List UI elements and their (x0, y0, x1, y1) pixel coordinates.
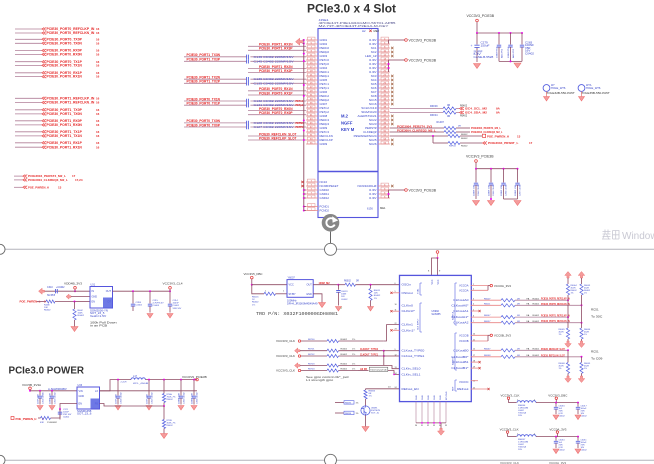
U6992 pin VCCOC (459, 381, 469, 384)
net PCIE30_PORT1_REFCLKN_IN (541, 319, 570, 323)
U6992 pin CLKoutB1 (453, 361, 469, 364)
svg-text:M.2: M.2 (341, 114, 349, 119)
capacitor C31B (132, 291, 134, 303)
no-connect mark (391, 119, 393, 121)
mounting hole W7 (543, 85, 550, 92)
wire PCIE30_PORT1_TX2N with series cap C136 (184, 78, 247, 80)
right pin stub 14 (378, 91, 390, 93)
svg-text:L17: L17 (133, 375, 138, 378)
svg-text:100NF X5R: 100NF X5R (192, 393, 194, 404)
svg-text:PERp2: PERp2 (320, 98, 330, 102)
svg-text:16: 16 (96, 75, 100, 79)
svg-text:9LI8455: 9LI8455 (432, 313, 442, 316)
left pin stub 9 (306, 71, 318, 73)
junction (303, 119, 305, 121)
svg-text:PCIE3004_PERST4_M2_L: PCIE3004_PERST4_M2_L (471, 126, 501, 130)
net POE_PWREN_H enable (11, 417, 14, 420)
pin net label PETN0 (296, 122, 305, 125)
no-connect mark (391, 47, 393, 49)
wire 3.3V pins to VCC3V3_PCIE3B (388, 40, 390, 44)
svg-text:17: 17 (529, 141, 533, 145)
power node circle (507, 397, 509, 399)
connector left pin GND2 (320, 42, 328, 46)
svg-text:9A: 9A (496, 111, 501, 115)
connector right pin PEWAKE#/NC24 (354, 134, 377, 138)
svg-text:1%: 1% (369, 396, 372, 398)
svg-text:R0402: R0402 (78, 315, 85, 317)
svg-text:PCIE30_PORT0_TX1P: PCIE30_PORT0_TX1P (187, 102, 221, 106)
svg-text:R6402: R6402 (461, 138, 468, 140)
power node circle (476, 19, 479, 22)
right pin stub 27 (378, 143, 390, 145)
right pin stub 2 (378, 43, 390, 45)
left pin stub 3 (306, 47, 318, 49)
net I2C4_SDA_M2 (460, 111, 464, 114)
ground (37, 406, 43, 411)
right pin stub 8 (378, 67, 390, 69)
svg-text:GND: GND (92, 296, 98, 299)
junction (149, 290, 151, 292)
termination pulldown column 4 (581, 357, 583, 363)
svg-text:33: 33 (433, 425, 435, 427)
junction (303, 39, 305, 41)
title: PCIe3.0 x 4 Slot (307, 4, 396, 16)
ground (488, 201, 495, 206)
net stub PCIE30_PORT1_TX0N (15, 113, 42, 115)
U6992 refdes (432, 310, 442, 316)
junction (490, 168, 492, 170)
svg-text:U31: U31 (91, 284, 96, 287)
U6992 pin VCCOB (459, 340, 469, 343)
connector left pin PETp1 (320, 86, 330, 90)
svg-text:R6703: R6703 (308, 363, 315, 365)
U6992 pin CLKin0 (402, 305, 414, 308)
connector lower left pin PCND2 (320, 209, 330, 213)
wire PCIE30_PORT1_TX3P with series cap C145 (184, 60, 247, 62)
svg-text:R3F04: R3F04 (449, 146, 456, 148)
U6992 bank labels (452, 312, 455, 320)
capacitor C363 (117, 379, 119, 381)
connector right pin NC8 (371, 94, 377, 98)
wire PCIE30_PORT0_RX0N (248, 110, 306, 112)
connector left pin GND5 (320, 78, 328, 82)
svg-text:NC6: NC6 (371, 86, 377, 90)
net stub PCIE30_PORT1_TX0P (15, 109, 42, 111)
net stub PCIE30_PORT0_TX0P (15, 38, 42, 40)
svg-text:VCCOA: VCCOA (459, 289, 469, 292)
svg-text:PCIE30_REFCLKP_SLOT: PCIE30_REFCLKP_SLOT (541, 347, 565, 351)
svg-text:CLKin0: CLKin0 (402, 305, 414, 308)
termination pullup column 1 (565, 272, 572, 279)
termination pullup column 2 (578, 272, 585, 279)
svg-text:3.3V: 3.3V (369, 38, 377, 42)
connector left pin PETn1 (320, 82, 330, 86)
ground (365, 415, 367, 426)
svg-text:GND9: GND9 (320, 142, 328, 146)
svg-text:VCC: VCC (289, 284, 294, 287)
stub rows lower (471, 380, 478, 382)
svg-text:100NF X5R: 100NF X5R (515, 185, 517, 196)
svg-text:13: 13 (395, 367, 397, 369)
svg-text:VCC5B_3V3A: VCC5B_3V3A (22, 383, 41, 387)
svg-text:17,24: 17,24 (75, 178, 83, 182)
left pin stub 18 (306, 107, 318, 109)
connector part number (319, 21, 397, 25)
svg-text:24: 24 (395, 387, 397, 389)
ferrite bead FB6007 (508, 436, 517, 438)
ground (575, 415, 581, 420)
wire EN (38, 417, 41, 419)
svg-text:PCIE30_PORT0_TX0N: PCIE30_PORT0_TX0N (47, 41, 83, 45)
capacitor C371 (59, 408, 61, 410)
svg-text:SCLK/C19: SCLK/C19 (361, 106, 377, 110)
svg-text:100NF/X5S: 100NF/X5S (508, 46, 510, 58)
svg-text:3.3V: 3.3V (369, 196, 377, 200)
svg-text:NC3: NC3 (371, 74, 377, 78)
connector right pin SCLK/C19 (361, 106, 377, 110)
net PCIE30_PORT1_REFCLKP_IN (541, 314, 570, 318)
ferrite bead FB6004 (509, 402, 517, 404)
svg-text:REF: REF (453, 386, 455, 391)
svg-text:C146 C0402 220NF/1SV: C146 C0402 220NF/1SV (254, 56, 294, 59)
svg-text:24: 24 (388, 387, 391, 389)
wire LX to inductor (100, 380, 132, 391)
connector right pin NC3 (371, 74, 377, 78)
net stub PCIE30_PORT1_RX1N (15, 146, 42, 148)
svg-text:R0402: R0402 (341, 368, 348, 370)
U6992 group brackets (420, 283, 457, 391)
svg-text:NC9/102KHZ: NC9/102KHZ (358, 184, 377, 188)
connector lower left pin NC10 (320, 180, 328, 184)
svg-text:GND5: GND5 (320, 78, 328, 82)
svg-text:0R: 0R (458, 125, 461, 127)
net stub PCIE30_PORT0_RX0P (15, 50, 42, 52)
svg-text:PCIE30_PORT0_RX1N: PCIE30_PORT0_RX1N (47, 75, 83, 79)
power label VCC3V3_CLK (500, 427, 519, 431)
svg-text:0R: 0R (447, 104, 450, 107)
connector left pin PERp1 (320, 74, 330, 78)
svg-text:PERn3: PERn3 (320, 118, 330, 122)
svg-text:PETn0: PETn0 (320, 58, 330, 62)
svg-text:C286 C0402: C286 C0402 (506, 183, 508, 196)
left pin stub 1 (306, 39, 318, 41)
U6992 pin CLKin_SEL1 (402, 373, 422, 376)
svg-text:13: 13 (58, 185, 62, 189)
svg-text:VCC3V3_CLK: VCC3V3_CLK (501, 393, 520, 397)
svg-text:R0402: R0402 (460, 115, 468, 118)
U6992 pin OSCin (402, 284, 412, 287)
svg-text:VCC3V3_PCIE3B: VCC3V3_PCIE3B (467, 14, 495, 18)
connector lower right pin 3.3V (369, 188, 377, 192)
svg-text:EN: EN (79, 402, 83, 405)
svg-text:SGM2036-YN: SGM2036-YN (90, 311, 108, 313)
left pin stub (306, 181, 318, 183)
svg-text:16: 16 (96, 31, 100, 35)
svg-text:NC10: NC10 (320, 180, 328, 184)
svg-text:GND10: GND10 (320, 188, 330, 192)
svg-text:RC51: RC51 (591, 307, 599, 311)
svg-text:22: 22 (395, 323, 397, 325)
svg-text:2.2uH: 2.2uH (121, 382, 127, 384)
left pin stub 11 (306, 79, 318, 81)
svg-text:150uF: 150uF (481, 44, 491, 47)
resistor R75C 43K (41, 416, 51, 419)
connector left pin PETn2 (320, 106, 330, 110)
svg-text:100NF X5R: 100NF X5R (50, 393, 52, 404)
connector left pin PERp2 (320, 98, 330, 102)
svg-text:SOT_3L: SOT_3L (371, 413, 380, 415)
net stub PCIE30_PORT0_REFCLKN_IN (15, 32, 42, 34)
svg-text:GND7: GND7 (320, 102, 328, 106)
svg-text:VCC: VCC (438, 279, 440, 284)
wire rail right (536, 402, 578, 404)
termination column link 1 (567, 300, 569, 317)
svg-text:VCC: VCC (432, 279, 434, 284)
net stub PCIE30_PORT0_TX0N (15, 42, 42, 44)
cap lower rail (499, 60, 522, 62)
svg-text:R6701: R6701 (308, 349, 315, 351)
power node circle (169, 287, 172, 290)
svg-text:PCND2: PCND2 (320, 209, 330, 213)
svg-text:Vesb=1.5V: Vesb=1.5V (90, 316, 107, 318)
capacitor C366 (193, 379, 195, 381)
svg-text:OUT: OUT (106, 290, 112, 293)
svg-text:CASE-B-5528: CASE-B-5528 (474, 56, 495, 59)
svg-text:6136: 6136 (367, 207, 373, 211)
power node circle (556, 431, 558, 433)
svg-text:C285 C0402: C285 C0402 (493, 183, 495, 196)
capacitor C310 (56, 289, 58, 293)
junction (303, 189, 305, 191)
junction (303, 197, 305, 199)
internal pull down box (369, 367, 388, 371)
svg-text:16: 16 (96, 101, 100, 105)
wire PRSNT row (432, 136, 434, 143)
svg-text:U33: U33 (78, 384, 83, 387)
connector left pin GND7 (320, 102, 328, 106)
connector right pin CLKREQ# (363, 130, 377, 134)
connector left pin PERn2 (320, 94, 330, 98)
svg-text:1%: 1% (374, 298, 377, 300)
wire PEWAKE row (390, 135, 448, 137)
connector right pin 3.3V (369, 58, 377, 62)
right pin stub 9 (378, 71, 390, 73)
power label VCC3V3_PCIE3B top (467, 14, 495, 18)
note RC51 To 30C (591, 307, 599, 311)
svg-text:8: 8 (428, 271, 430, 273)
svg-text:R6068: R6068 (484, 355, 491, 357)
svg-text:22UF X5R: 22UF X5R (147, 394, 149, 404)
svg-text:3.3V: 3.3V (369, 192, 377, 196)
ground (473, 201, 480, 206)
svg-text:1%: 1% (352, 349, 355, 351)
svg-text:1%: 1% (352, 339, 355, 341)
junction (303, 60, 305, 62)
svg-text:CLK INPUT: CLK INPUT (418, 318, 420, 330)
svg-text:PCIE30_PORT0_REFCLKN_IN: PCIE30_PORT0_REFCLKN_IN (47, 31, 96, 35)
no-connect mark (391, 103, 393, 105)
svg-text:PCIE30_PORT1_TX1N: PCIE30_PORT1_TX1N (47, 134, 83, 138)
U6992 GND pins bottom (416, 395, 418, 400)
net PCIE30_PORT0_REFCLKP_IN (541, 297, 570, 301)
svg-text:EN: EN (92, 301, 96, 304)
capacitor C6019 (337, 285, 339, 290)
termination pulldown column 2 (581, 323, 583, 328)
net POE_PWREN_L input (20, 300, 41, 304)
wire ST/BY branch (252, 285, 264, 294)
svg-text:30: 30 (415, 425, 417, 427)
U6992 pin CLKin0* (402, 310, 415, 313)
svg-text:VDD4B_3V3: VDD4B_3V3 (64, 282, 82, 286)
net PCIE3004_CLKREQ3_M2_L out (471, 130, 503, 134)
right pin stub 1 (378, 39, 390, 41)
svg-text:C132 C0402 220NF/1SV: C132 C0402 220NF/1SV (254, 100, 294, 103)
gnd arrow input (39, 288, 45, 294)
svg-text:PCIE30_PORT1_REFCLKN_IN: PCIE30_PORT1_REFCLKN_IN (47, 101, 96, 105)
connector lower left pin GND12 (320, 196, 330, 200)
connector lower left pin GND11 (320, 192, 330, 196)
svg-text:PCIE3004_PRSNT_L: PCIE3004_PRSNT_L (488, 141, 519, 145)
wire SEL1 to pin (388, 371, 400, 375)
no-connect mark (391, 75, 393, 77)
connector right pin NC1 (371, 46, 377, 50)
wire row4 link (383, 351, 385, 366)
left pin stub 21 (306, 119, 318, 121)
connector right pin LED_1# (365, 54, 377, 58)
junction (132, 290, 134, 292)
cap link rail (504, 198, 518, 200)
ground (575, 449, 581, 454)
svg-text:PCIE30_PORT0_RX0P: PCIE30_PORT0_RX0P (259, 111, 293, 115)
svg-text:OUT: OUT (307, 284, 313, 287)
no-connect stub (393, 292, 400, 294)
svg-text:VCC3V3_DBC: VCC3V3_DBC (548, 393, 567, 397)
power node circle (555, 397, 557, 399)
left pin stub 6 (306, 59, 318, 61)
svg-text:PCIE30_PORT0_RX0N: PCIE30_PORT0_RX0N (47, 53, 83, 57)
svg-text:CLKoutA1: CLKoutA1 (453, 310, 469, 313)
left pin stub 27 (306, 143, 318, 145)
pin label H2 / ME2 (362, 29, 366, 33)
power node circle (74, 287, 77, 290)
svg-text:SDA/NC20: SDA/NC20 (361, 110, 377, 114)
svg-text:A-SGM3604BV: A-SGM3604BV (48, 388, 67, 391)
svg-text:R6002: R6002 (344, 281, 351, 283)
net stub POE_PWREN_H (14, 186, 23, 188)
left pin stub 26 (306, 139, 318, 141)
junction (521, 32, 523, 34)
svg-text:VCC0A_3V3: VCC0A_3V3 (549, 427, 567, 431)
left pin stub 22 (306, 123, 318, 125)
net POE_PWREN_H (483, 134, 486, 137)
svg-text:ST/BY: ST/BY (289, 293, 297, 296)
svg-text:ME1: ME1 (380, 206, 386, 210)
power label VCC5B_3V3A (22, 383, 41, 387)
U6992 pin CLKoutA1 (453, 310, 469, 313)
wire to rail (507, 433, 509, 436)
svg-text:16: 16 (96, 123, 100, 127)
left pin stub 15 (306, 95, 318, 97)
net PCIE30_PORT0_REFCLKN_IN (541, 302, 570, 306)
left pin stub 20 (306, 115, 318, 117)
svg-text:1%: 1% (571, 293, 574, 295)
svg-text:SOT_23_5: SOT_23_5 (90, 313, 105, 315)
power node VCC3V3_PCIE3B (405, 39, 408, 42)
left pin stub (306, 189, 318, 191)
wire SEL0 to pin (384, 366, 400, 369)
U6992 pin REFout_EN (402, 388, 419, 391)
net stub PCIE30_PORT0_RX1P (15, 72, 42, 74)
wire PCIE30_REFCLKN_SLOT (248, 135, 306, 137)
ground (167, 314, 173, 319)
connector left pin PERn1 (320, 70, 330, 74)
right pin stub 26 (378, 139, 390, 141)
connector lower left pin NC/MFPE1ET (320, 184, 339, 188)
wire GND to ground (313, 294, 322, 303)
no-connect mark (391, 79, 393, 81)
svg-text:GND: GND (440, 395, 442, 400)
svg-text:C287 C0402: C287 C0402 (520, 183, 522, 196)
connector right pin 3.3V (369, 38, 377, 42)
resistor R6007 series (PCIE30_PORT0_REFCLKP_IN) (471, 299, 501, 301)
svg-text:NC26: NC26 (369, 142, 377, 146)
net stub PCIE30_PORT0_RX0N (15, 53, 42, 55)
wire PCIE30_REFCLKP_SLOT (248, 139, 306, 141)
no-connect mark (391, 87, 393, 89)
net stub PCIE30_PORT0_TX1P (15, 61, 42, 63)
termination column link 2 (581, 305, 583, 322)
svg-text:16: 16 (96, 145, 100, 149)
wire to rail (475, 162, 477, 168)
net PCIE3004_PRSNT_L (483, 142, 487, 145)
resistor R6702 row (276, 354, 295, 358)
svg-text:OSCout: OSCout (402, 292, 414, 295)
connector label M.2 NGFF KEY M (341, 114, 355, 133)
connector left pin GND9 (320, 126, 328, 130)
U6992 pin CLKout_TYPE0 (402, 350, 426, 353)
net stub PCIE3004_PERST4_M2_L (14, 175, 23, 177)
connector right pin NC23 (369, 122, 377, 126)
svg-text:PERn0: PERn0 (320, 46, 330, 50)
resistor R6011 series (PCIE30_PORT0_REFCLKN_IN) (471, 304, 501, 306)
svg-text:CLKoutB0: CLKoutB0 (453, 349, 469, 352)
transistor U6691 (365, 399, 367, 406)
right pin stub 12 (378, 83, 390, 85)
svg-text:R1497: R1497 (437, 121, 445, 124)
power node above U6992 (436, 251, 439, 254)
hole W7 ground (546, 91, 548, 96)
input rail (30, 390, 77, 392)
right pin stub 23 (378, 127, 390, 129)
left pin stub (306, 210, 318, 212)
capacitor C364 (148, 379, 150, 381)
small resistor row 1 (335, 402, 344, 404)
svg-text:3.3V: 3.3V (369, 62, 377, 66)
svg-text:PERn1: PERn1 (320, 70, 330, 74)
svg-text:VCC0V9_PCIE3B: VCC0V9_PCIE3B (182, 375, 207, 379)
svg-text:NC/MFPE1ET: NC/MFPE1ET (320, 184, 339, 188)
divider handle circle 2 (325, 454, 337, 464)
svg-text:VCC3V3_CLK: VCC3V3_CLK (276, 354, 295, 358)
svg-text:R6402: R6402 (461, 146, 468, 148)
junction (370, 284, 372, 286)
svg-text:CLKoutB1: CLKoutB1 (453, 361, 469, 364)
note 100k pull down (90, 321, 117, 328)
svg-text:12: 12 (395, 354, 397, 356)
IC U31 load switch (90, 287, 113, 309)
svg-text:GND6: GND6 (320, 90, 328, 94)
svg-text:OSCin: OSCin (402, 284, 412, 287)
